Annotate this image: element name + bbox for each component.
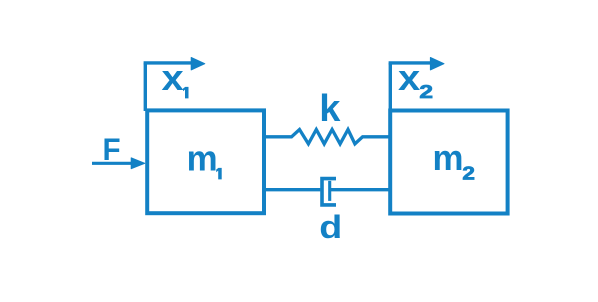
label k	[319, 88, 341, 130]
svg-text:k: k	[319, 88, 341, 130]
damper d: piston plate	[328, 181, 331, 201]
label d	[319, 209, 342, 245]
svg-text:d: d	[319, 209, 342, 245]
mass m1 box	[147, 110, 264, 213]
svg-text:2: 2	[462, 164, 475, 184]
displacement axis x2: arrow shaft	[389, 61, 431, 64]
displacement axis x1: arrow shaft	[144, 61, 192, 64]
damper d: cylinder cup	[322, 179, 336, 205]
svg-text:F: F	[103, 131, 121, 167]
force arrow F head	[131, 158, 145, 169]
svg-text:m: m	[433, 137, 464, 178]
displacement axis x1: riser	[144, 63, 147, 111]
force label F	[103, 131, 121, 167]
displacement axis x2: arrowhead	[430, 58, 444, 70]
displacement axis x2: riser	[389, 63, 392, 111]
svg-text:2: 2	[419, 82, 433, 102]
force arrow F shaft	[92, 162, 132, 165]
spring k	[264, 130, 390, 144]
svg-text:x: x	[162, 57, 184, 98]
label x1	[162, 57, 189, 98]
label m2	[433, 137, 475, 184]
displacement axis x1: arrowhead	[191, 58, 205, 70]
mass m2 box	[390, 111, 507, 214]
label m1	[187, 138, 222, 180]
label x2	[398, 57, 433, 102]
damper d: left rod	[264, 188, 320, 191]
svg-text:m: m	[187, 138, 218, 179]
damper d: right rod	[330, 188, 390, 191]
svg-text:x: x	[398, 57, 420, 98]
